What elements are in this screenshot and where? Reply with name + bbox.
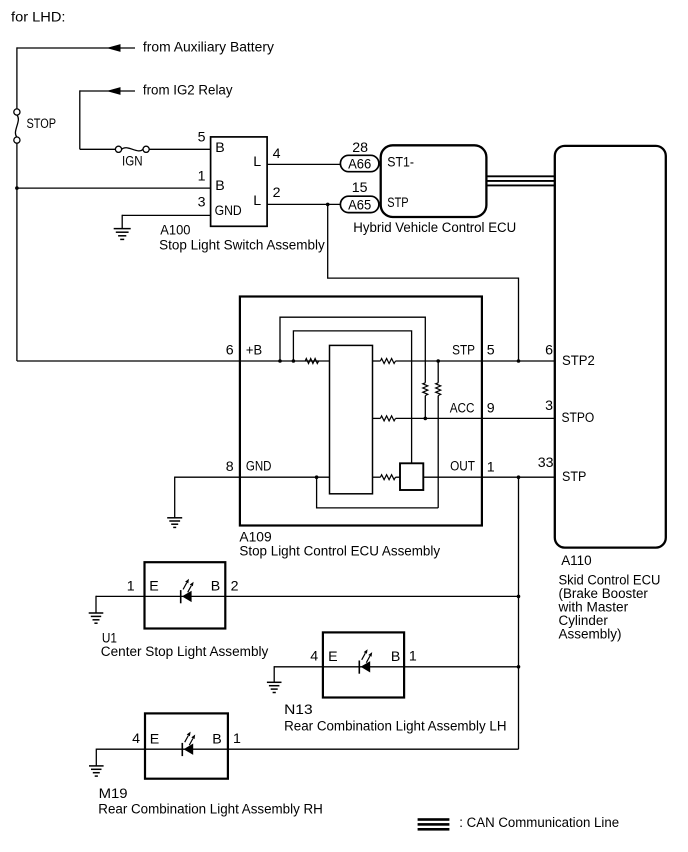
svg-text:2: 2 bbox=[273, 185, 281, 201]
lamp N13 Rear Combination LH box bbox=[323, 632, 404, 697]
svg-text:3: 3 bbox=[545, 398, 553, 414]
svg-text:2: 2 bbox=[231, 578, 239, 594]
svg-text:Hybrid Vehicle Control ECU: Hybrid Vehicle Control ECU bbox=[353, 220, 516, 236]
wire from IG2 relay feed bbox=[80, 90, 135, 92]
svg-text:GND: GND bbox=[215, 203, 242, 219]
svg-text:from IG2 Relay: from IG2 Relay bbox=[143, 82, 233, 98]
wire IGN fuse to A100 pin 5 bbox=[149, 148, 210, 150]
resistor on ACC line bbox=[380, 416, 395, 421]
svg-text:A100: A100 bbox=[160, 223, 190, 239]
junction node loop1-ACC bbox=[424, 417, 428, 421]
junction node STP net / trunk top bbox=[517, 475, 521, 479]
wire A100 pin 3 to ground bbox=[122, 214, 210, 216]
wire loop1 lower segment bbox=[424, 396, 426, 419]
wire STP segment from IC bbox=[373, 360, 381, 362]
junction node STP2 net bbox=[517, 359, 521, 363]
svg-text:1: 1 bbox=[233, 731, 241, 747]
svg-text:8: 8 bbox=[226, 459, 234, 475]
svg-text:Assembly): Assembly) bbox=[559, 627, 622, 643]
connector A100 Stop Light Switch Assembly box bbox=[211, 137, 268, 226]
svg-text:STP2: STP2 bbox=[562, 353, 595, 369]
svg-text:M19: M19 bbox=[99, 786, 128, 802]
legend CAN symbol bbox=[418, 818, 450, 821]
svg-text:4: 4 bbox=[132, 731, 140, 747]
svg-text:A65: A65 bbox=[348, 198, 371, 214]
junction node on A65 wire bbox=[326, 203, 330, 207]
LED N13 bbox=[358, 661, 360, 674]
svg-text:1: 1 bbox=[487, 459, 495, 475]
svg-text:Stop Light Switch Assembly: Stop Light Switch Assembly bbox=[159, 238, 326, 254]
svg-text:from Auxiliary Battery: from Auxiliary Battery bbox=[143, 39, 275, 55]
svg-text:B: B bbox=[211, 579, 220, 595]
ground (N13) bbox=[267, 681, 282, 683]
resistor on +B line bbox=[305, 359, 319, 364]
junction node on left trunk (pin 1 tap) bbox=[15, 186, 19, 190]
wire IG2 vertical drop bbox=[79, 90, 81, 149]
svg-text:L: L bbox=[253, 193, 261, 209]
junction node trunk-N13 bbox=[517, 665, 521, 669]
wire ACC line to A110 bbox=[396, 417, 555, 419]
svg-text:B: B bbox=[391, 649, 400, 665]
svg-text:: CAN Communication Line: : CAN Communication Line bbox=[459, 815, 619, 831]
wire M19 row bbox=[96, 748, 518, 750]
wire from-auxiliary-battery feed bbox=[17, 47, 135, 49]
LED U1 bbox=[180, 590, 182, 603]
svg-text:ST1-: ST1- bbox=[387, 155, 414, 171]
svg-text:B: B bbox=[215, 140, 224, 156]
ECU A109 Stop Light Control box bbox=[240, 297, 482, 526]
resistor R2 vertical bbox=[436, 383, 441, 396]
ground (M19) bbox=[89, 765, 104, 767]
wire bottom loop bbox=[317, 477, 439, 508]
wire trunk to light assemblies bbox=[518, 477, 520, 749]
svg-text:OUT: OUT bbox=[450, 458, 475, 474]
fuse STOP bbox=[14, 109, 20, 115]
wire to A100 pin 1 bbox=[17, 187, 211, 189]
svg-text:4: 4 bbox=[310, 649, 318, 665]
fuse IGN bbox=[115, 146, 121, 152]
svg-text:B: B bbox=[212, 731, 221, 747]
resistor loop1 vertical bbox=[423, 383, 428, 396]
connector A66 bbox=[340, 155, 379, 171]
ECU Hybrid Vehicle Control box bbox=[381, 145, 487, 217]
wire STP line to A110 bbox=[396, 360, 555, 362]
wire OUT resistor to driver square bbox=[396, 476, 401, 478]
resistor on OUT line bbox=[380, 475, 395, 480]
svg-text:N13: N13 bbox=[284, 702, 313, 718]
svg-text:ACC: ACC bbox=[450, 401, 475, 417]
resistor on STP line bbox=[380, 359, 395, 364]
svg-text:Rear Combination Light Assembl: Rear Combination Light Assembly LH bbox=[284, 718, 506, 734]
ground (A100) bbox=[114, 228, 131, 230]
svg-text:Center Stop Light Assembly: Center Stop Light Assembly bbox=[101, 644, 269, 660]
LED M19 bbox=[181, 743, 183, 756]
lamp M19 Rear Combination RH box bbox=[145, 713, 228, 778]
wire N13 row bbox=[274, 666, 518, 668]
svg-text:STPO: STPO bbox=[562, 410, 595, 426]
svg-text:B: B bbox=[215, 178, 224, 194]
svg-text:A110: A110 bbox=[561, 553, 592, 569]
svg-text:3: 3 bbox=[198, 195, 206, 211]
wire U1 row bbox=[96, 595, 519, 597]
wire R2 vertical lower bbox=[437, 396, 439, 508]
wire U1 ground lead bbox=[95, 596, 97, 613]
svg-text:GND: GND bbox=[246, 458, 272, 474]
svg-text:IGN: IGN bbox=[122, 154, 143, 170]
svg-text:6: 6 bbox=[226, 342, 234, 358]
wire OUT segment from IC bbox=[373, 476, 381, 478]
ECU A110 Skid Control box bbox=[555, 146, 666, 548]
svg-text:E: E bbox=[328, 649, 337, 665]
transistor driver (square) in A109 bbox=[400, 463, 423, 490]
wire ACC segment from IC bbox=[373, 417, 381, 419]
svg-text:Rear Combination Light Assembl: Rear Combination Light Assembly RH bbox=[98, 801, 322, 817]
arrow from IG2 Relay bbox=[107, 87, 121, 95]
junction node loop1 tap bbox=[278, 359, 282, 363]
svg-text:28: 28 bbox=[352, 140, 368, 156]
junction node loop2 tap bbox=[292, 359, 296, 363]
svg-text:A66: A66 bbox=[348, 157, 371, 173]
connector A65 bbox=[340, 196, 379, 212]
svg-text:STP: STP bbox=[562, 469, 586, 485]
arrow from Auxiliary Battery bbox=[107, 44, 121, 52]
svg-text:STP: STP bbox=[387, 195, 408, 211]
wire R2 vertical upper bbox=[437, 361, 439, 383]
svg-text:+B: +B bbox=[246, 343, 262, 359]
lamp U1 Center Stop Light box bbox=[145, 562, 226, 628]
wire left trunk upper segment bbox=[16, 47, 18, 109]
junction node GND loop tap bbox=[315, 475, 319, 479]
svg-text:6: 6 bbox=[545, 343, 553, 359]
svg-text:1: 1 bbox=[198, 168, 206, 184]
svg-text:E: E bbox=[150, 731, 159, 747]
wire +B line bbox=[17, 360, 330, 362]
svg-text:1: 1 bbox=[409, 649, 417, 665]
svg-text:Stop Light Control ECU Assembl: Stop Light Control ECU Assembly bbox=[239, 544, 441, 560]
svg-text:L: L bbox=[253, 154, 261, 170]
wire loop1 over IC bbox=[280, 317, 425, 383]
ground (A109) bbox=[167, 517, 182, 519]
svg-text:5: 5 bbox=[487, 343, 495, 359]
wire loop2 over IC bbox=[293, 331, 411, 463]
wire M19 ground lead bbox=[95, 749, 97, 766]
wire A109 ground lead bbox=[174, 477, 176, 518]
CAN bus triple line bbox=[486, 175, 554, 177]
wire A100 pin 4 to connector A66 bbox=[267, 163, 341, 165]
svg-text:E: E bbox=[149, 579, 158, 595]
svg-text:4: 4 bbox=[273, 146, 281, 162]
svg-text:9: 9 bbox=[487, 401, 495, 417]
svg-text:for LHD:: for LHD: bbox=[11, 9, 66, 25]
junction node trunk-U1 bbox=[517, 595, 521, 599]
svg-text:1: 1 bbox=[127, 578, 135, 594]
junction node STP-R2 bbox=[436, 359, 440, 363]
svg-text:STOP: STOP bbox=[27, 116, 57, 132]
svg-text:5: 5 bbox=[198, 130, 206, 146]
svg-text:STP: STP bbox=[452, 343, 475, 359]
IC U-internal of A109 bbox=[330, 345, 373, 493]
wire GND line bbox=[175, 476, 330, 478]
wire IG2 to IGN fuse bbox=[80, 148, 116, 150]
svg-text:33: 33 bbox=[538, 455, 554, 471]
wire N13 ground lead bbox=[273, 666, 275, 682]
wire left trunk lower segment bbox=[16, 143, 18, 361]
wire A100 pin 2 to connector A65 bbox=[267, 203, 341, 205]
wire OUT line to A110 bbox=[423, 476, 555, 478]
wire A65 junction down-right to STP2 net bbox=[328, 204, 519, 361]
svg-text:15: 15 bbox=[352, 180, 368, 196]
ground (U1) bbox=[89, 612, 104, 614]
